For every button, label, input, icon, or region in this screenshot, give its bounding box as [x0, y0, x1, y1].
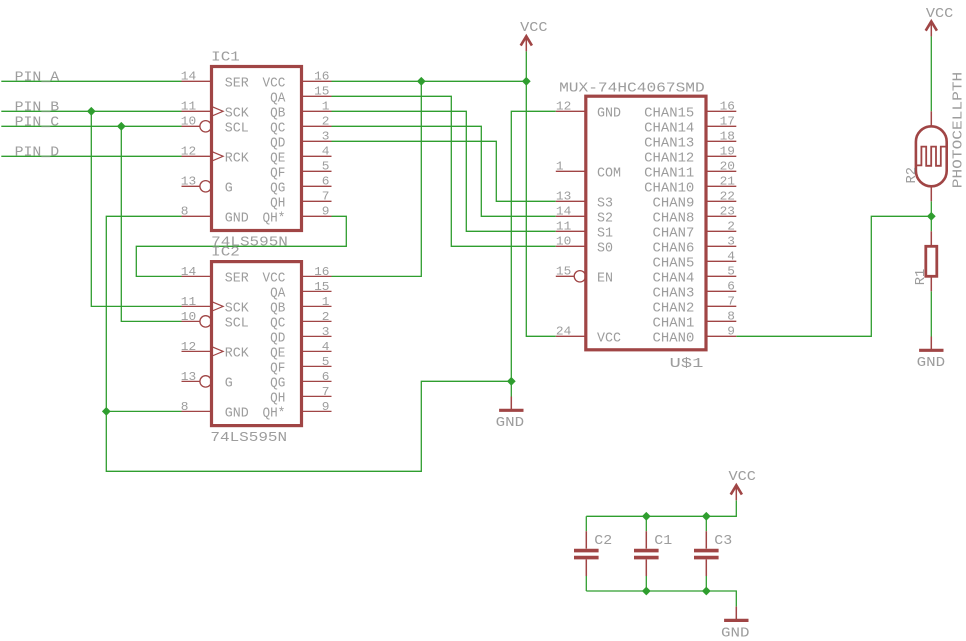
svg-text:17: 17	[720, 115, 735, 129]
svg-text:IC1: IC1	[211, 50, 240, 65]
svg-text:4: 4	[727, 250, 735, 264]
svg-text:CHAN6: CHAN6	[653, 241, 695, 256]
svg-text:24: 24	[556, 325, 571, 339]
svg-text:4: 4	[322, 145, 330, 159]
svg-text:1: 1	[556, 160, 564, 174]
svg-text:MUX-74HC4067SMD: MUX-74HC4067SMD	[559, 82, 705, 97]
svg-text:R1: R1	[914, 269, 929, 286]
svg-text:10: 10	[181, 310, 196, 324]
svg-text:SCL: SCL	[225, 121, 249, 136]
svg-text:QG: QG	[270, 181, 285, 196]
svg-text:CHAN2: CHAN2	[653, 301, 695, 316]
svg-text:5: 5	[322, 355, 330, 369]
svg-text:CHAN10: CHAN10	[644, 181, 694, 196]
svg-text:CHAN5: CHAN5	[653, 256, 695, 271]
svg-text:16: 16	[314, 70, 329, 84]
svg-text:12: 12	[181, 340, 196, 354]
svg-text:CHAN8: CHAN8	[653, 211, 695, 226]
svg-text:RCK: RCK	[225, 346, 250, 361]
svg-text:13: 13	[181, 370, 196, 384]
svg-text:7: 7	[322, 190, 330, 204]
svg-text:QA: QA	[270, 286, 286, 301]
svg-text:7: 7	[727, 295, 735, 309]
svg-text:5: 5	[727, 265, 735, 279]
svg-text:11: 11	[556, 220, 571, 234]
svg-text:7: 7	[322, 385, 330, 399]
svg-text:QB: QB	[270, 301, 285, 316]
svg-text:6: 6	[727, 280, 735, 294]
svg-text:CHAN3: CHAN3	[653, 286, 695, 301]
svg-text:21: 21	[720, 175, 735, 189]
svg-text:CHAN13: CHAN13	[644, 136, 694, 151]
svg-text:QB: QB	[270, 106, 285, 121]
svg-text:VCC: VCC	[926, 7, 953, 22]
svg-text:6: 6	[322, 370, 330, 384]
svg-text:PIN_C: PIN_C	[15, 115, 60, 131]
svg-text:15: 15	[314, 280, 329, 294]
svg-text:SER: SER	[225, 76, 249, 91]
svg-text:9: 9	[727, 325, 735, 339]
svg-text:S0: S0	[597, 241, 613, 256]
svg-text:QH: QH	[270, 196, 285, 211]
svg-text:10: 10	[181, 115, 196, 129]
svg-text:R2: R2	[905, 167, 920, 184]
svg-text:VCC: VCC	[597, 331, 621, 346]
svg-text:20: 20	[720, 160, 735, 174]
svg-text:GND: GND	[496, 416, 525, 431]
svg-text:CHAN1: CHAN1	[653, 316, 695, 331]
svg-text:SCK: SCK	[225, 301, 250, 316]
svg-text:COM: COM	[597, 166, 621, 181]
svg-text:QD: QD	[270, 331, 285, 346]
svg-text:QH: QH	[270, 391, 285, 406]
svg-text:13: 13	[181, 175, 196, 189]
svg-text:QE: QE	[270, 346, 285, 361]
svg-text:QE: QE	[270, 151, 285, 166]
svg-text:14: 14	[181, 70, 196, 84]
svg-text:QG: QG	[270, 376, 285, 391]
svg-text:CHAN14: CHAN14	[644, 121, 694, 136]
svg-text:22: 22	[720, 190, 735, 204]
svg-text:12: 12	[181, 145, 196, 159]
svg-text:PIN_B: PIN_B	[15, 100, 60, 116]
svg-text:S2: S2	[597, 211, 613, 226]
svg-text:CHAN7: CHAN7	[653, 226, 695, 241]
svg-text:11: 11	[181, 295, 196, 309]
svg-text:G: G	[225, 376, 233, 391]
svg-text:15: 15	[556, 265, 571, 279]
svg-text:GND: GND	[917, 356, 946, 371]
svg-text:2: 2	[322, 115, 330, 129]
svg-text:C3: C3	[714, 534, 732, 549]
svg-text:1: 1	[322, 100, 330, 114]
svg-text:QF: QF	[270, 361, 285, 376]
svg-text:GND: GND	[721, 626, 750, 641]
svg-text:15: 15	[314, 85, 329, 99]
svg-text:23: 23	[720, 205, 735, 219]
svg-text:QH*: QH*	[263, 406, 286, 421]
svg-text:CHAN0: CHAN0	[653, 331, 695, 346]
svg-text:VCC: VCC	[729, 470, 756, 485]
svg-text:SCL: SCL	[225, 316, 249, 331]
svg-text:VCC: VCC	[263, 271, 286, 286]
svg-text:PIN_A: PIN_A	[15, 70, 60, 86]
svg-text:2: 2	[727, 220, 735, 234]
svg-text:5: 5	[322, 160, 330, 174]
svg-text:RCK: RCK	[225, 151, 250, 166]
svg-text:QC: QC	[270, 121, 285, 136]
svg-text:GND: GND	[225, 406, 249, 421]
svg-text:10: 10	[556, 235, 571, 249]
svg-text:G: G	[225, 181, 233, 196]
svg-text:C2: C2	[594, 534, 612, 549]
svg-text:9: 9	[322, 400, 330, 414]
svg-text:3: 3	[322, 325, 330, 339]
svg-text:3: 3	[322, 130, 330, 144]
svg-text:16: 16	[720, 100, 735, 114]
svg-text:19: 19	[720, 145, 735, 159]
svg-text:SCK: SCK	[225, 106, 250, 121]
svg-text:QH*: QH*	[263, 211, 286, 226]
svg-text:QC: QC	[270, 316, 285, 331]
svg-text:CHAN9: CHAN9	[653, 196, 695, 211]
svg-text:U$1: U$1	[670, 357, 704, 372]
svg-text:IC2: IC2	[211, 246, 240, 261]
svg-text:VCC: VCC	[520, 21, 547, 36]
svg-text:11: 11	[181, 100, 196, 114]
svg-text:12: 12	[556, 100, 571, 114]
svg-text:PHOTOCELLPTH: PHOTOCELLPTH	[952, 72, 966, 188]
svg-text:18: 18	[720, 130, 735, 144]
svg-text:CHAN12: CHAN12	[644, 151, 694, 166]
svg-text:GND: GND	[225, 211, 249, 226]
svg-text:QF: QF	[270, 166, 285, 181]
svg-text:1: 1	[322, 295, 330, 309]
svg-text:8: 8	[727, 310, 735, 324]
svg-text:8: 8	[181, 205, 189, 219]
svg-text:CHAN15: CHAN15	[644, 106, 694, 121]
svg-text:14: 14	[181, 265, 196, 279]
svg-text:6: 6	[322, 175, 330, 189]
svg-text:GND: GND	[597, 106, 621, 121]
svg-text:C1: C1	[654, 534, 672, 549]
svg-text:9: 9	[322, 205, 330, 219]
svg-text:QA: QA	[270, 91, 286, 106]
svg-text:PIN_D: PIN_D	[15, 145, 60, 161]
svg-text:8: 8	[181, 400, 189, 414]
svg-text:14: 14	[556, 205, 571, 219]
svg-text:QD: QD	[270, 136, 285, 151]
svg-text:74LS595N: 74LS595N	[210, 431, 287, 446]
svg-text:EN: EN	[597, 271, 613, 286]
svg-text:S1: S1	[597, 226, 613, 241]
svg-text:13: 13	[556, 190, 571, 204]
svg-text:4: 4	[322, 340, 330, 354]
svg-text:2: 2	[322, 310, 330, 324]
svg-text:3: 3	[727, 235, 735, 249]
svg-text:VCC: VCC	[263, 76, 286, 91]
svg-text:S3: S3	[597, 196, 613, 211]
svg-text:CHAN11: CHAN11	[644, 166, 694, 181]
svg-text:SER: SER	[225, 271, 249, 286]
svg-text:CHAN4: CHAN4	[653, 271, 695, 286]
svg-text:16: 16	[314, 265, 329, 279]
